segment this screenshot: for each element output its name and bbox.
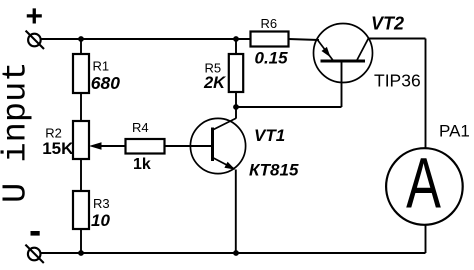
svg-text:R1: R1 xyxy=(93,59,110,74)
wire R5 bottom lead xyxy=(235,92,237,107)
svg-text:VT2: VT2 xyxy=(371,14,404,34)
terminal X1 plus input xyxy=(26,31,44,49)
svg-text:15K: 15K xyxy=(42,139,74,158)
svg-text:A: A xyxy=(406,145,441,224)
svg-text:VT1: VT1 xyxy=(254,126,285,145)
node junction E (VT1 emitter) xyxy=(233,250,239,256)
svg-text:PA1: PA1 xyxy=(439,122,470,141)
svg-text:R3: R3 xyxy=(93,196,110,211)
svg-text:TIP36: TIP36 xyxy=(374,70,421,90)
node junction A (R1 top) xyxy=(78,36,84,42)
wire top rail right of R6 xyxy=(289,39,320,40)
wire bottom rail xyxy=(41,252,426,254)
svg-text:R4: R4 xyxy=(132,120,149,135)
svg-text:0.15: 0.15 xyxy=(255,49,289,68)
ammeter PA1 xyxy=(386,145,463,225)
wire R3 bottom lead xyxy=(80,229,82,253)
svg-text:1k: 1k xyxy=(133,156,151,173)
wire VT1 emitter lead xyxy=(235,170,237,254)
resistor R5 xyxy=(229,54,243,92)
wire top rail xyxy=(41,38,251,40)
svg-text:R6: R6 xyxy=(261,16,278,31)
wire PA1 bottom lead xyxy=(425,225,427,254)
potentiometer R2 xyxy=(73,121,89,159)
wire R4 to VT1 base xyxy=(165,145,213,147)
transistor VT2 xyxy=(314,24,373,83)
node junction B (R5 top) xyxy=(233,36,239,42)
wiper arrow of R2 xyxy=(89,142,126,150)
node junction D (R3 bottom) xyxy=(78,250,84,256)
wire VT2 collector to PA1 xyxy=(369,39,426,150)
terminal X2 minus input xyxy=(25,245,43,263)
resistor R3 xyxy=(73,191,89,229)
wire R2 to R3 xyxy=(80,159,82,191)
resistor R6 xyxy=(251,32,289,47)
wire R5 top lead xyxy=(235,39,237,54)
svg-text:КТ815: КТ815 xyxy=(249,161,299,180)
svg-text:+: + xyxy=(26,0,44,33)
svg-text:10: 10 xyxy=(91,211,110,230)
svg-text:2K: 2K xyxy=(203,74,226,92)
wire VT1 collector lead xyxy=(235,107,237,119)
wire VT2 base to node C xyxy=(236,61,342,107)
wire R1 to R2 xyxy=(80,93,82,121)
svg-text:680: 680 xyxy=(91,73,120,93)
node junction C (R5 bottom / VT1 collector / VT2 base) xyxy=(233,104,239,110)
resistor R1 xyxy=(73,54,89,93)
wire R1 top lead xyxy=(80,39,82,54)
transistor VT1 xyxy=(190,118,245,173)
minus polarity label xyxy=(31,231,40,236)
resistor R4 xyxy=(126,139,165,154)
svg-text:U input: U input xyxy=(0,61,36,203)
